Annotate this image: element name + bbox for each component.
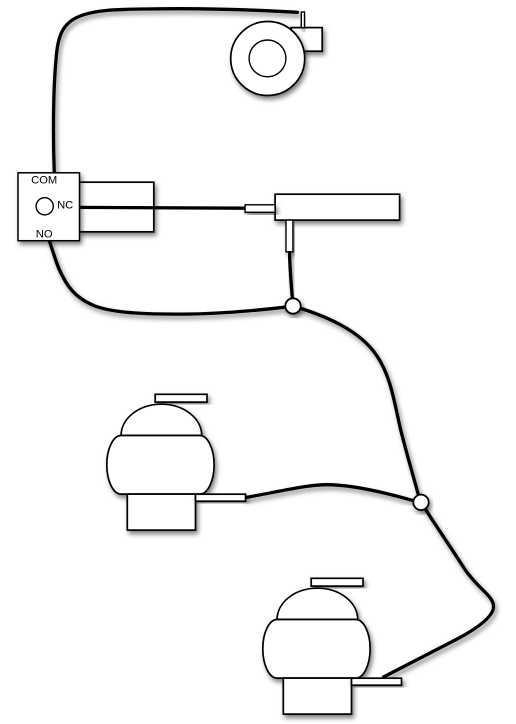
- svg-text:NO: NO: [36, 229, 53, 241]
- svg-text:COM: COM: [31, 175, 57, 187]
- svg-text:NC: NC: [57, 199, 73, 211]
